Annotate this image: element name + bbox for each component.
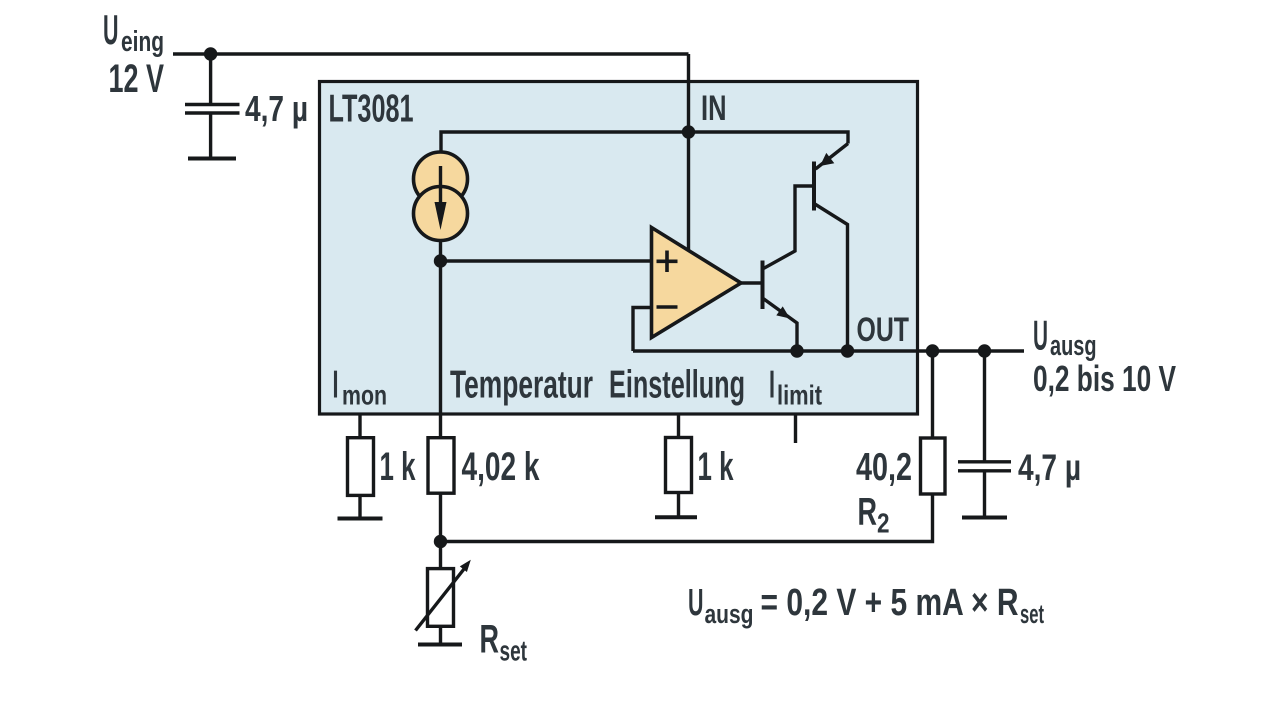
wire: C2 tap down to capacitor <box>983 351 986 461</box>
ground below C2 <box>962 516 1007 520</box>
svg-text:U: U <box>1033 312 1048 359</box>
svg-text:Einstellung: Einstellung <box>609 364 745 407</box>
svg-text:I: I <box>333 364 339 407</box>
svg-text:U: U <box>688 582 704 624</box>
svg-text:R: R <box>480 618 500 662</box>
wire: output line down to R2 <box>931 351 934 437</box>
svg-text:set: set <box>1020 599 1044 629</box>
svg-text:4,7 µ: 4,7 µ <box>245 88 308 129</box>
resistor 1k (Einstellung) <box>666 438 692 493</box>
transistor Q2 (PNP pass) <box>814 144 848 352</box>
current source I1 <box>414 152 468 241</box>
svg-text:ausg: ausg <box>705 599 754 629</box>
svg-text:I: I <box>769 364 775 407</box>
ground below Rset <box>418 643 462 647</box>
svg-text:R: R <box>858 491 878 534</box>
node: Q2 collector on output line <box>841 344 854 357</box>
wire: input rail from Ueing to IN drop <box>173 52 689 55</box>
wire: node to op-amp plus input <box>441 259 653 262</box>
svg-text:2: 2 <box>877 508 890 539</box>
wire: Einstellung resistor to ground <box>677 493 680 517</box>
wire: junction down to C1 <box>209 54 212 104</box>
svg-text:1 k: 1 k <box>380 445 416 489</box>
node: Rset junction <box>434 535 447 548</box>
svg-text:IN: IN <box>701 89 727 128</box>
node: current source output junction <box>434 254 447 267</box>
wire: bottom rail from junction to R2 <box>441 494 933 542</box>
svg-text:40,2: 40,2 <box>856 446 912 489</box>
resistor R2 40,2 <box>921 438 946 494</box>
wire: junction down to Rset <box>439 542 442 570</box>
node: input junction above C1 <box>204 47 217 60</box>
svg-text:OUT: OUT <box>857 311 910 349</box>
svg-text:Temperatur: Temperatur <box>450 364 593 407</box>
wire: Imon pin lead <box>358 414 361 438</box>
wire: IN rail left to current source and right to Q2 emitter <box>441 132 848 155</box>
resistor 4,02k (Temperatur) <box>428 438 454 494</box>
wire: Einstellung pin lead <box>677 414 680 438</box>
wire: Ilimit stub <box>794 414 797 443</box>
resistor Rset (adjustable) <box>416 560 471 631</box>
transistor Q1 (NPN driver) <box>763 186 815 351</box>
svg-text:12 V: 12 V <box>109 57 165 101</box>
op-amp U2 <box>652 228 742 338</box>
svg-text:limit: limit <box>777 380 822 411</box>
svg-text:= 0,2 V + 5 mA × R: = 0,2 V + 5 mA × R <box>761 582 1019 624</box>
wire: Imon resistor to ground <box>358 495 361 517</box>
ground below Imon resistor <box>338 517 383 521</box>
node: C2 tap on output line <box>978 344 991 357</box>
wire: current source to node <box>439 240 442 262</box>
resistor 1k (Imon) <box>348 438 374 496</box>
node IN junction <box>682 125 695 138</box>
formula Uausg = 0,2 V + 5 mA x Rset <box>688 582 1044 629</box>
ground below C1 <box>188 157 236 161</box>
node: Q1 emitter on output line <box>790 344 803 357</box>
svg-text:mon: mon <box>342 380 387 411</box>
svg-text:0,2 bis 10 V: 0,2 bis 10 V <box>1033 358 1176 399</box>
svg-text:eing: eing <box>121 26 164 58</box>
wire: Rset to ground <box>439 626 442 643</box>
IC U1 LT3081 body <box>320 82 918 415</box>
wire: op-amp minus feedback to output line <box>633 308 652 352</box>
svg-text:U: U <box>103 6 119 53</box>
svg-text:4,02 k: 4,02 k <box>462 445 540 489</box>
capacitor C1 4,7µ <box>185 105 240 158</box>
svg-text:set: set <box>500 636 528 668</box>
svg-text:LT3081: LT3081 <box>329 88 414 131</box>
node: R2 tap on output line <box>926 344 939 357</box>
wire: Temperatur leg down to bottom junction <box>439 261 442 542</box>
capacitor C2 4,7µ <box>958 462 1011 516</box>
wire: IN drop from top rail to op-amp supply <box>687 54 690 251</box>
wire: op-amp output to Q1 base <box>741 281 763 284</box>
ground below Einstellung resistor <box>655 515 697 519</box>
svg-text:4,7 µ: 4,7 µ <box>1018 447 1081 488</box>
wire: output line <box>633 349 1024 352</box>
svg-text:1 k: 1 k <box>698 445 734 489</box>
